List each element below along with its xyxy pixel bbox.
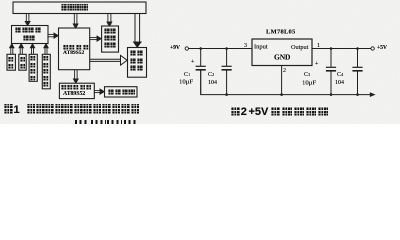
block: motor driver module 电机驱动模块 box <box>102 26 119 52</box>
caption: 图1 智能救援机器人的结构框图 <box>4 104 13 114</box>
block: power module 电源模块 box <box>13 2 146 14</box>
capacitor C4 104 <box>352 49 362 95</box>
label: +5V <box>377 45 387 51</box>
label: 辅助控制器 text <box>61 84 91 90</box>
capacitor C2 104 <box>222 49 232 95</box>
block: detect-sense module 检测感应模块 box <box>12 26 49 44</box>
block: sound-light alarm module 声光报警模块 box <box>128 48 147 78</box>
label: 报警 text <box>130 58 143 64</box>
heading (cut off): 电源电路 big bold <box>75 120 139 133</box>
arrow: main controller to sound-light alarm (big hollow) <box>90 55 128 65</box>
label: pin number 1 <box>317 42 320 48</box>
label: 检测感应 text <box>15 27 41 33</box>
label: pin number 2 <box>283 67 286 73</box>
label: sensor4 测高度模块 vertical text <box>43 55 49 87</box>
label: C3 <box>304 71 310 77</box>
arrow: power to main controller <box>73 14 78 29</box>
block: sensor box 2 <box>19 54 26 70</box>
block: sensor box 4 <box>42 54 50 89</box>
label: C2 <box>208 71 214 77</box>
arrow: sensor2 up to detect-sense <box>19 44 23 55</box>
arrow: main controller to motor driver <box>90 36 102 41</box>
label: AT89S52 (main) <box>63 50 84 56</box>
label: 电源模块 text <box>61 4 88 11</box>
label: 主控制器 text <box>63 44 89 50</box>
caption: 图2 +5V的电源电路 <box>231 107 240 116</box>
label: 声光 text <box>130 50 143 56</box>
label: C1 plus <box>191 58 194 64</box>
arrow: power to sound-light alarm (tall double line) <box>134 14 141 48</box>
label: C1 value 10uF <box>179 78 193 85</box>
label: 显示模块 text <box>108 89 135 95</box>
label: AT89S52 (aux) <box>63 91 85 97</box>
label: sensor2 寻线 vertical text <box>20 56 26 70</box>
wire: output rail to +5V <box>312 48 371 50</box>
label: +9V <box>170 45 180 51</box>
wire: +9V input rail <box>189 48 253 50</box>
arrow: power to detect-sense <box>25 14 30 26</box>
label: pin name GND <box>274 54 290 62</box>
block: main controller AT89S52 box <box>59 28 90 70</box>
arrow: detect-sense to main controller <box>48 33 58 38</box>
label: C3 plus <box>315 60 318 66</box>
capacitor C3 10uF electrolytic <box>326 49 336 95</box>
label: C2 value 104 <box>208 79 217 85</box>
arrow: power to motor driver <box>107 14 112 27</box>
terminal: +9V circle <box>185 47 188 50</box>
label: C1 <box>184 71 190 77</box>
block: sensor box 1 <box>7 54 15 70</box>
label: sensor1 避障 vertical text <box>8 56 14 70</box>
wire: IC GND pin 2 down <box>281 66 283 95</box>
op IC U1 LM78L05 box <box>252 39 312 66</box>
block: sensor box 3 <box>29 54 37 81</box>
arrow: auxiliary controller to display module <box>94 89 104 94</box>
terminal: +5V circle <box>371 47 374 50</box>
arrow: sensor3 up to detect-sense <box>30 44 34 55</box>
wire: ground rail with right arrow <box>201 70 376 97</box>
label: 模块 text (alarm) <box>130 65 143 71</box>
block: auxiliary controller AT89S52 box <box>59 83 94 98</box>
label: C4 value 104 <box>335 79 344 85</box>
arrow: main controller down to auxiliary controller <box>73 70 78 83</box>
label: 模块 text (motor) <box>104 42 116 48</box>
label: pin name Input <box>254 43 268 50</box>
capacitor C1 10uF electrolytic <box>196 49 206 95</box>
block: display module 显示模块 box <box>105 87 138 97</box>
scan noise overlay <box>0 0 400 124</box>
label: pin name Output <box>291 44 308 50</box>
label: sensor3 检测铁片 vertical text <box>30 55 36 81</box>
arrow: sensor4 up to detect-sense <box>44 44 48 55</box>
node: junction dots <box>199 47 358 96</box>
label: 驱动 text <box>104 35 116 41</box>
arrow: sensor1 up to detect-sense <box>10 44 14 55</box>
label: C4 <box>337 71 343 77</box>
label: pin number 3 <box>244 42 247 48</box>
label: 电机 text <box>104 28 116 34</box>
label: 模块 text <box>23 35 36 41</box>
label: IC name LM78L05 <box>266 28 296 35</box>
label: C3 value 10uF <box>302 79 316 86</box>
